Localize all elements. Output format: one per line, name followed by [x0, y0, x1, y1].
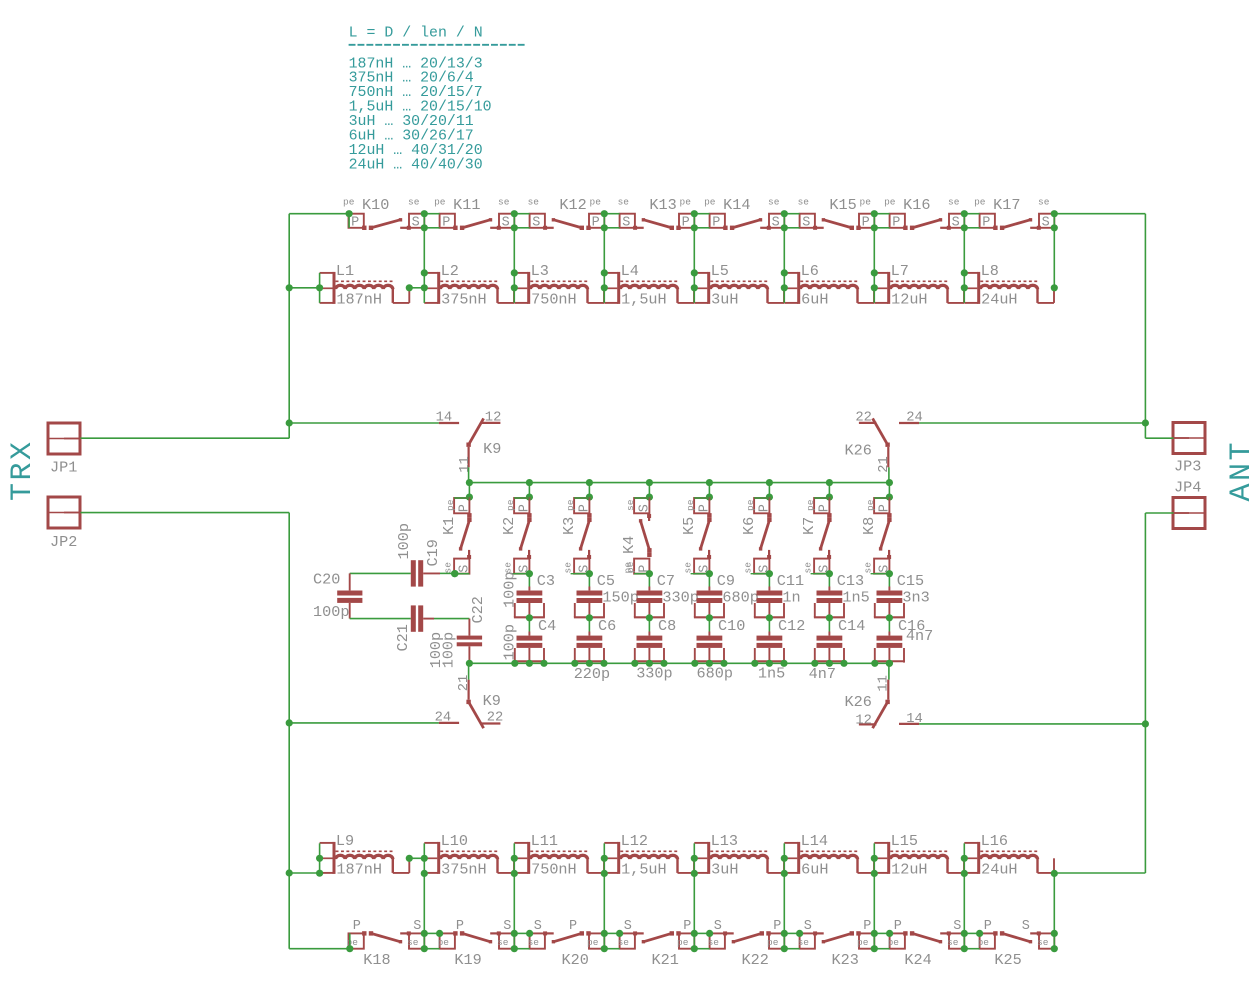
svg-text:12uH: 12uH [891, 860, 927, 878]
svg-text:se: se [798, 937, 810, 948]
svg-text:P: P [698, 504, 713, 512]
node L1 left pin junction [316, 273, 323, 303]
node junction left rail K9 bottom feed [286, 719, 293, 726]
relay contact K4 [620, 483, 653, 578]
svg-text:se: se [1038, 197, 1050, 208]
svg-text:S: S [638, 504, 653, 512]
relay contact K1 [440, 483, 473, 578]
node inductor junction top c6 [871, 269, 878, 303]
capacitor C9 [694, 572, 735, 621]
node inductor junction top c5 [781, 269, 788, 303]
connector JP3 [1173, 423, 1206, 476]
svg-text:K1: K1 [440, 517, 458, 535]
svg-text:1,5uH: 1,5uH [621, 290, 667, 308]
svg-text:750nH: 750nH [531, 860, 577, 878]
capacitor C5 [574, 572, 615, 621]
value label C6 [574, 665, 610, 683]
svg-text:pe: pe [445, 499, 456, 511]
svg-text:P: P [758, 504, 773, 512]
svg-text:pe: pe [438, 937, 450, 948]
node inductor junction bottom c6 [871, 843, 878, 877]
svg-text:750nH: 750nH [531, 290, 577, 308]
svg-text:ANT: ANT [1225, 440, 1254, 502]
svg-text:L7: L7 [891, 262, 909, 280]
wire TRX JP1 to left rail [81, 437, 290, 439]
node junction bottom rail C8 [631, 660, 667, 667]
svg-text:100p: 100p [501, 572, 519, 608]
svg-text:C12: C12 [778, 617, 805, 635]
svg-text:K9: K9 [483, 440, 501, 458]
svg-text:pe: pe [704, 197, 716, 208]
svg-text:S: S [953, 919, 961, 934]
svg-text:L14: L14 [801, 832, 828, 850]
value label C11 [782, 588, 800, 606]
svg-text:S: S [1042, 215, 1050, 230]
svg-text:K3: K3 [560, 517, 578, 535]
value label C3 [501, 572, 519, 608]
svg-text:375nH: 375nH [441, 290, 487, 308]
svg-text:P: P [592, 215, 600, 230]
svg-text:K12: K12 [559, 196, 586, 214]
inductor L4 [604, 262, 694, 308]
value label C8 [636, 664, 672, 682]
wire to L9 [289, 872, 319, 874]
inductor L9 [320, 832, 410, 878]
wire relay column drop c3 [601, 210, 620, 273]
wire middle bottom rail [469, 662, 889, 664]
svg-text:12: 12 [485, 411, 502, 426]
svg-text:P: P [518, 504, 533, 512]
svg-text:680p: 680p [722, 588, 758, 606]
svg-text:L13: L13 [711, 832, 738, 850]
relay contact K6 [740, 483, 773, 578]
svg-text:se: se [798, 197, 810, 208]
svg-text:C11: C11 [777, 572, 804, 590]
svg-text:24: 24 [435, 711, 452, 726]
svg-text:4n7: 4n7 [906, 627, 933, 645]
wire relay column drop c6 [871, 210, 890, 273]
relay contact K10 [343, 196, 424, 230]
node junction K10 pole [346, 210, 353, 228]
relay contact K2 [500, 483, 533, 578]
svg-text:pe: pe [587, 937, 599, 948]
relay contact K16 [884, 196, 964, 230]
svg-text:100p: 100p [395, 523, 413, 559]
capacitor C19 [350, 523, 459, 587]
svg-text:S: S [772, 215, 780, 230]
svg-text:L16: L16 [981, 832, 1008, 850]
svg-text:P: P [442, 215, 450, 230]
svg-text:C19: C19 [424, 539, 442, 566]
svg-text:pe: pe [865, 499, 876, 511]
svg-text:pe: pe [343, 197, 355, 208]
svg-text:C21: C21 [394, 624, 412, 651]
svg-text:C3: C3 [537, 572, 555, 590]
svg-text:S: S [458, 565, 473, 573]
svg-text:L6: L6 [801, 262, 819, 280]
node inductor junction top c7 [961, 269, 968, 303]
svg-text:pe: pe [625, 561, 636, 573]
svg-text:K4: K4 [620, 536, 638, 554]
svg-text:4n7: 4n7 [809, 665, 836, 683]
svg-text:pe: pe [857, 937, 869, 948]
svg-text:TRX: TRX [6, 439, 40, 501]
wire relay column drop c5 [781, 210, 800, 273]
relay contact K20 [528, 919, 605, 969]
node junction left rail L1 feed [286, 284, 293, 291]
svg-text:L = D / len / N: L = D / len / N [349, 26, 483, 42]
svg-text:K26: K26 [845, 693, 872, 711]
svg-text:11: 11 [458, 456, 473, 473]
svg-text:K8: K8 [860, 517, 878, 535]
svg-text:S: S [624, 919, 632, 934]
svg-text:L1: L1 [336, 262, 354, 280]
svg-text:pe: pe [767, 937, 779, 948]
node junction C15 rail [886, 660, 893, 667]
svg-text:S: S [1022, 919, 1030, 934]
svg-text:K15: K15 [829, 196, 856, 214]
relay contact K22 [708, 919, 785, 969]
switch K26 bottom contact [845, 675, 923, 728]
node junction K18 pole [346, 933, 353, 952]
svg-text:K19: K19 [454, 951, 481, 969]
svg-text:680p: 680p [697, 664, 733, 682]
wire to bottom K9 pin 24 [289, 722, 439, 724]
capacitor C21 [350, 605, 470, 651]
node junction bottom rail C4 [511, 660, 547, 667]
capacitor C10 [694, 617, 745, 663]
svg-text:P: P [456, 919, 464, 934]
svg-text:K25: K25 [994, 951, 1021, 969]
node junction left rail L9 feed [286, 869, 293, 876]
svg-text:se: se [528, 937, 540, 948]
node junction left rail K9 feed [286, 419, 293, 426]
svg-text:1n5: 1n5 [842, 588, 869, 606]
inductor L13 [694, 832, 784, 878]
value label C13 [842, 588, 869, 606]
svg-text:C10: C10 [718, 617, 745, 635]
capacitor C7 [634, 572, 675, 621]
svg-text:375nH: 375nH [441, 860, 487, 878]
svg-text:187nH: 187nH [336, 860, 382, 878]
svg-text:S: S [802, 215, 810, 230]
wire right rail lower segment [1144, 513, 1146, 873]
node junction bottom rail C12 [751, 660, 787, 667]
wire to L1 pin [289, 287, 319, 289]
svg-text:se: se [407, 937, 419, 948]
relay contact K19 [438, 919, 515, 969]
svg-text:P: P [351, 215, 359, 230]
svg-text:12uH: 12uH [891, 290, 927, 308]
svg-text:se: se [562, 562, 573, 574]
svg-text:21: 21 [877, 456, 892, 473]
node L9 left pin junction [316, 843, 323, 877]
svg-text:se: se [1037, 937, 1049, 948]
inductor L5 [694, 262, 784, 308]
wire bottom relay column riser c6 [871, 873, 894, 952]
svg-text:24uH … 40/40/30: 24uH … 40/40/30 [349, 157, 483, 173]
svg-text:pe: pe [505, 499, 516, 511]
svg-text:24: 24 [906, 411, 923, 426]
svg-text:P: P [458, 504, 473, 512]
svg-text:6uH: 6uH [801, 290, 828, 308]
wire left rail upper segment [288, 214, 290, 439]
wire bottom relay column riser c7 [961, 873, 984, 952]
svg-text:P: P [892, 215, 900, 230]
svg-text:P: P [894, 919, 902, 934]
svg-text:pe: pe [805, 499, 816, 511]
svg-text:P: P [712, 215, 720, 230]
svg-text:P: P [878, 504, 893, 512]
svg-text:330p: 330p [636, 664, 672, 682]
wire relay column drop c8 [1051, 210, 1058, 288]
svg-text:se: se [528, 197, 540, 208]
relay contact K13 [618, 196, 695, 230]
svg-text:P: P [569, 919, 577, 934]
svg-text:S: S [413, 919, 421, 934]
svg-text:187nH: 187nH [336, 290, 382, 308]
wire ANT JP3 to right rail [1145, 437, 1173, 439]
switch K9 top contact [436, 411, 502, 473]
inductor L7 [874, 262, 964, 308]
svg-text:pe: pe [677, 937, 689, 948]
inductor L2 [424, 262, 514, 308]
svg-text:pe: pe [745, 499, 756, 511]
connector JP4 [1173, 479, 1206, 529]
node inductor junction bottom c5 [781, 843, 788, 877]
node inductor junction top c3 [601, 269, 608, 303]
svg-text:pe: pe [884, 197, 896, 208]
relay contact K24 [888, 919, 965, 969]
svg-text:3uH: 3uH [711, 860, 738, 878]
svg-text:L3: L3 [531, 262, 549, 280]
svg-text:L8: L8 [981, 262, 999, 280]
svg-text:K17: K17 [993, 196, 1020, 214]
svg-text:14: 14 [436, 411, 453, 426]
svg-text:K21: K21 [652, 951, 679, 969]
relay contact K5 [680, 483, 713, 578]
svg-text:100p: 100p [313, 603, 349, 621]
svg-text:L12: L12 [621, 832, 648, 850]
svg-text:C5: C5 [597, 572, 615, 590]
svg-text:L2: L2 [441, 262, 459, 280]
svg-text:24uH: 24uH [981, 290, 1017, 308]
wire from K26 pin 24 [919, 422, 1145, 424]
node junction bottom rail C16 [871, 660, 893, 667]
inductor L6 [784, 262, 874, 308]
wire bottom K26 pin11 to cap rail [888, 663, 890, 679]
svg-text:12: 12 [855, 713, 872, 728]
capacitor C8 [634, 617, 676, 663]
value label C5 [602, 588, 638, 606]
svg-text:S: S [532, 215, 540, 230]
svg-text:S: S [622, 215, 630, 230]
svg-text:pe: pe [685, 499, 696, 511]
svg-text:P: P [682, 215, 690, 230]
svg-text:se: se [948, 197, 960, 208]
svg-text:K26: K26 [845, 442, 872, 460]
svg-text:L11: L11 [531, 832, 558, 850]
svg-text:JP4: JP4 [1174, 479, 1201, 497]
svg-text:220p: 220p [574, 665, 610, 683]
inductor L12 [604, 832, 694, 878]
relay contact K23 [798, 919, 875, 969]
svg-text:150p: 150p [602, 588, 638, 606]
wire from bottom K26 pin 14 [919, 723, 1145, 725]
node inductor junction top c4 [691, 269, 698, 303]
svg-text:se: se [625, 499, 636, 511]
svg-text:C14: C14 [838, 617, 865, 635]
value label C14 [809, 665, 836, 683]
svg-text:P: P [353, 919, 361, 934]
wire K9 pin11 to cap rail [468, 467, 470, 482]
svg-text:pe: pe [680, 197, 692, 208]
node junction bottom rail C10 [691, 660, 727, 667]
svg-text:24uH: 24uH [981, 860, 1017, 878]
svg-text:se: se [618, 197, 630, 208]
svg-text:K10: K10 [362, 196, 389, 214]
inductor L16 [964, 832, 1054, 878]
relay contact K11 [434, 196, 514, 230]
wire to L16 [1054, 872, 1145, 874]
svg-text:L9: L9 [336, 832, 354, 850]
relay contact K18 [347, 919, 425, 969]
node inductor junction top c8 [1051, 284, 1058, 291]
svg-text:K2: K2 [500, 517, 518, 535]
capacitor C22 [427, 596, 487, 668]
relay contact K15 [798, 196, 875, 230]
svg-text:P: P [862, 215, 870, 230]
relay contact K14 [704, 196, 784, 230]
value label C4 [501, 624, 519, 660]
svg-text:JP2: JP2 [50, 533, 77, 551]
svg-text:6uH: 6uH [801, 860, 828, 878]
value label C12 [758, 664, 785, 682]
svg-text:C22: C22 [469, 596, 487, 623]
svg-text:pe: pe [590, 197, 602, 208]
relay contact K25 [978, 919, 1055, 969]
svg-text:21: 21 [457, 675, 472, 692]
svg-text:K13: K13 [649, 196, 676, 214]
node inductor junction top c1 [406, 269, 428, 303]
svg-text:330p: 330p [662, 588, 698, 606]
node inductor junction bottom c3 [601, 843, 608, 877]
svg-text:K16: K16 [903, 196, 930, 214]
svg-text:S: S [714, 919, 722, 934]
capacitor C15 [874, 572, 924, 621]
svg-text:K7: K7 [800, 517, 818, 535]
svg-text:se: se [742, 562, 753, 574]
capacitor C6 [574, 617, 616, 663]
svg-text:1n: 1n [782, 588, 800, 606]
svg-text:JP1: JP1 [50, 459, 77, 477]
capacitor C20 [313, 571, 362, 622]
svg-text:se: se [708, 937, 720, 948]
node inductor junction top c2 [511, 269, 518, 303]
inductor L1 [320, 262, 410, 308]
wire bottom K9 pin21 to cap rail [468, 663, 470, 679]
svg-text:se: se [408, 197, 420, 208]
svg-text:C15: C15 [897, 572, 924, 590]
wire relay column drop c4 [691, 210, 710, 273]
capacitor C14 [814, 617, 865, 663]
svg-text:K6: K6 [740, 517, 758, 535]
svg-text:se: se [497, 937, 509, 948]
wire top rail left segment [289, 213, 349, 215]
svg-text:P: P [984, 919, 992, 934]
svg-text:100p: 100p [501, 624, 519, 660]
value label C7 [662, 588, 698, 606]
svg-text:se: se [947, 937, 959, 948]
svg-text:S: S [804, 919, 812, 934]
svg-text:K9: K9 [483, 692, 501, 710]
inductor L3 [514, 262, 604, 308]
svg-text:P: P [773, 919, 781, 934]
svg-text:P: P [863, 919, 871, 934]
svg-text:14: 14 [906, 712, 923, 727]
relay contact K12 [528, 196, 605, 230]
svg-text:P: P [982, 215, 990, 230]
svg-text:K20: K20 [562, 951, 589, 969]
svg-text:22: 22 [487, 711, 504, 726]
svg-text:K11: K11 [453, 196, 480, 214]
wire bottom relay rail left segment [289, 948, 350, 950]
relay contact K7 [800, 483, 833, 578]
value label C15 [902, 588, 929, 606]
svg-text:1,5uH: 1,5uH [621, 860, 667, 878]
wire left rail lower segment [288, 513, 290, 949]
node inductor junction bottom c1 [406, 843, 428, 877]
relay contact K17 [974, 196, 1054, 230]
svg-text:pe: pe [434, 197, 446, 208]
wire ANT JP4 to right rail [1145, 512, 1173, 514]
wire relay column drop c1 [421, 210, 440, 273]
capacitor C3 [514, 572, 555, 621]
svg-text:pe: pe [565, 499, 576, 511]
svg-text:JP3: JP3 [1174, 458, 1201, 476]
svg-text:L5: L5 [711, 262, 729, 280]
node junction bottom rail C6 [571, 660, 607, 667]
capacitor C11 [754, 572, 804, 621]
inductor L14 [784, 832, 874, 878]
svg-text:P: P [578, 504, 593, 512]
label ANT [1225, 440, 1254, 502]
svg-text:se: se [682, 562, 693, 574]
wire bottom relay column riser c5 [781, 873, 804, 952]
svg-text:S: S [412, 215, 420, 230]
relay contact K8 [860, 483, 893, 578]
value label C9 [722, 588, 758, 606]
svg-text:22: 22 [855, 411, 872, 426]
relay contact K21 [618, 919, 695, 969]
wire bottom relay column riser c1 [421, 873, 444, 952]
svg-text:pe: pe [978, 937, 990, 948]
svg-text:K23: K23 [832, 951, 859, 969]
capacitor C4 [514, 617, 556, 663]
inductor L11 [514, 832, 604, 878]
svg-text:K5: K5 [680, 517, 698, 535]
svg-text:C4: C4 [538, 617, 556, 635]
capacitor C12 [754, 617, 805, 663]
wire bottom relay column riser c2 [511, 873, 534, 952]
node junction right rail bottom K26 feed [1142, 720, 1149, 727]
inductor winding table note [349, 26, 526, 174]
relay contact K3 [560, 483, 593, 578]
svg-text:pe: pe [860, 197, 872, 208]
svg-text:C7: C7 [657, 572, 675, 590]
node inductor junction bottom c4 [691, 843, 698, 877]
svg-text:S: S [952, 215, 960, 230]
